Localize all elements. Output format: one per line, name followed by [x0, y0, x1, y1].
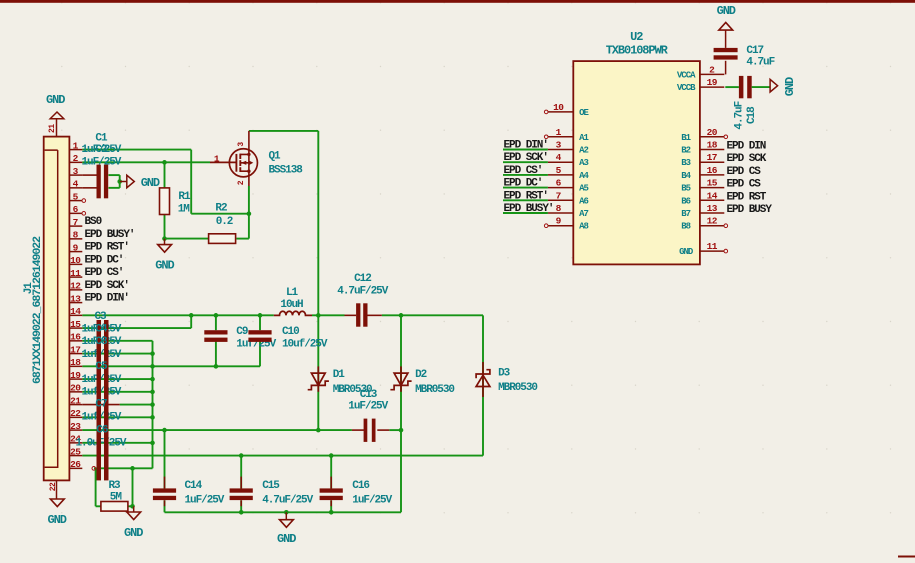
inductor L1	[274, 311, 312, 315]
svg-text:6: 6	[73, 204, 79, 215]
junction bus19	[150, 377, 155, 382]
ground top of J1	[50, 112, 64, 119]
svg-text:GND: GND	[48, 513, 67, 527]
no-connect A1	[544, 135, 548, 139]
junction D2/C13	[399, 428, 404, 433]
svg-text:4.7uF/25V: 4.7uF/25V	[262, 495, 313, 507]
svg-text:R3: R3	[109, 480, 122, 492]
capacitors C3-C8 plates	[97, 320, 102, 480]
svg-text:1uF/25V: 1uF/25V	[352, 495, 392, 507]
svg-text:13: 13	[707, 203, 718, 214]
svg-text:10uf/25V: 10uf/25V	[282, 338, 328, 350]
no-connect B8	[724, 224, 728, 228]
svg-text:R1: R1	[178, 191, 191, 203]
svg-text:C7: C7	[95, 399, 107, 411]
wire C14 bottom	[164, 500, 166, 512]
junction GND	[284, 510, 289, 515]
svg-text:A6: A6	[579, 196, 588, 206]
pin 4 of J1	[69, 187, 82, 189]
wire C13 right	[389, 429, 401, 431]
junction C15 bottom	[239, 510, 244, 515]
wire C16 bottom	[330, 500, 332, 512]
svg-text:GND: GND	[124, 526, 143, 540]
pin 8 U2 (A7)	[548, 212, 573, 214]
C14 bottom lead	[164, 500, 166, 506]
svg-text:B5: B5	[681, 184, 690, 194]
no-connect pin 5	[82, 199, 86, 203]
svg-text:9: 9	[556, 216, 562, 227]
pin 5 U2 (A4)	[548, 174, 573, 176]
pin 2 U2 (VCCA)	[700, 73, 724, 75]
wire C2 right	[109, 187, 120, 189]
svg-text:C9: C9	[236, 326, 248, 338]
junction R3/GND	[130, 504, 135, 509]
svg-text:B3: B3	[681, 158, 690, 168]
svg-text:3: 3	[237, 142, 246, 147]
pin 9 U2 (A8)	[548, 225, 573, 227]
svg-text:TXB0108PWR: TXB0108PWR	[606, 44, 669, 58]
svg-text:14: 14	[70, 306, 81, 317]
pin 15 of J1	[69, 327, 82, 329]
svg-text:6: 6	[556, 178, 562, 189]
svg-text:EPD CS': EPD CS'	[85, 267, 124, 279]
svg-text:BSS138: BSS138	[269, 165, 304, 177]
sheet border top	[0, 0, 915, 3]
C12 left lead	[345, 314, 357, 316]
svg-text:C16: C16	[352, 480, 369, 492]
capacitor C9	[204, 330, 227, 334]
wire pin23 net	[82, 429, 352, 431]
svg-text:C4: C4	[95, 324, 108, 336]
svg-text:4.7uF: 4.7uF	[734, 101, 746, 129]
svg-text:A8: A8	[579, 222, 588, 232]
svg-text:A2: A2	[579, 146, 588, 156]
wire C10 top	[259, 315, 261, 330]
no-connect pin 6	[82, 212, 86, 216]
wire C14 top	[164, 430, 166, 488]
ground stub	[133, 506, 135, 512]
svg-text:7: 7	[556, 190, 562, 201]
svg-text:D2: D2	[415, 369, 427, 381]
pin 17 U2 (B3)	[700, 161, 724, 163]
svg-text:20: 20	[707, 127, 718, 138]
wire D3 vertical	[482, 315, 484, 455]
junction	[117, 179, 122, 184]
no-connect A8	[544, 224, 548, 228]
junction D1 bottom	[316, 428, 321, 433]
pin 19 U2 (VCCB)	[700, 86, 724, 88]
svg-text:4: 4	[73, 179, 79, 190]
no-connect OE	[544, 110, 548, 114]
svg-text:2: 2	[709, 64, 715, 75]
wire pin2/gate net	[82, 161, 210, 163]
transistor Q1	[210, 131, 257, 186]
svg-text:4.7uF/25V: 4.7uF/25V	[337, 286, 388, 298]
svg-text:EPD BUSY: EPD BUSY	[727, 204, 773, 216]
junction bus24	[150, 441, 155, 446]
pin 14 of J1	[69, 314, 82, 316]
pin 9 of J1	[69, 251, 82, 253]
pin 8 of J1	[69, 238, 82, 240]
pin 25 of J1	[69, 455, 82, 457]
junction	[189, 313, 194, 318]
pin 14 U2 (B6)	[700, 199, 724, 201]
pin 15 U2 (B5)	[700, 187, 724, 189]
wire pin24	[82, 442, 152, 444]
wire C1 right	[109, 174, 120, 176]
junction R1/R2/GND	[162, 236, 167, 241]
pin 20 U2 (B1)	[700, 136, 724, 138]
pin 1 U2 (A1)	[548, 136, 573, 138]
svg-text:MBR0530: MBR0530	[415, 384, 454, 396]
svg-text:C2: C2	[95, 144, 107, 156]
wire R1 top	[164, 162, 166, 188]
wire R3 left lead	[96, 505, 101, 507]
svg-text:11: 11	[70, 268, 81, 279]
svg-text:C15: C15	[262, 480, 280, 492]
pin 18 of J1	[69, 365, 82, 367]
svg-text:C10: C10	[282, 326, 299, 338]
svg-text:1uF/25V: 1uF/25V	[185, 495, 225, 507]
C12 right lead	[367, 314, 382, 316]
svg-text:EPD BUSY': EPD BUSY'	[85, 229, 135, 241]
svg-text:C8: C8	[95, 336, 108, 348]
wire Q1 source down	[248, 186, 250, 239]
pin 5 of J1	[69, 200, 82, 202]
svg-text:GND: GND	[155, 259, 174, 273]
ground right of C18	[770, 79, 778, 92]
wire C10 bottom	[259, 341, 261, 367]
svg-text:B7: B7	[681, 209, 690, 219]
svg-text:VCCB: VCCB	[677, 83, 696, 93]
svg-text:10uH: 10uH	[280, 299, 303, 311]
wire pin18 to C9/C10	[82, 365, 260, 367]
svg-text:10: 10	[70, 255, 81, 266]
wire R1 bottom	[164, 215, 166, 239]
wire EPD CS'	[503, 174, 548, 176]
resistor R2	[209, 234, 236, 244]
junction bus18	[150, 364, 155, 369]
svg-text:9: 9	[73, 242, 79, 253]
no-connect GND	[724, 249, 728, 253]
junction C9 bottom	[214, 364, 219, 369]
svg-text:D1: D1	[333, 369, 346, 381]
svg-text:R2: R2	[215, 202, 227, 214]
svg-text:19: 19	[70, 370, 81, 381]
svg-text:1: 1	[73, 140, 79, 151]
wire pin1 net	[82, 149, 191, 151]
svg-text:1uf/25V: 1uf/25V	[82, 349, 122, 361]
svg-text:16: 16	[70, 332, 81, 343]
svg-text:5: 5	[556, 165, 562, 176]
svg-text:A5: A5	[579, 184, 588, 194]
C7 lead	[82, 404, 119, 406]
svg-text:14: 14	[707, 190, 718, 201]
wire row15 up	[190, 315, 192, 328]
junction C10	[258, 313, 263, 318]
pin 13 of J1	[69, 302, 82, 304]
wire C18 to GND	[752, 86, 770, 88]
svg-text:EPD SCK': EPD SCK'	[504, 152, 548, 164]
svg-text:15: 15	[707, 178, 718, 189]
svg-text:12: 12	[70, 281, 81, 292]
pin 26 of J1	[69, 467, 82, 469]
svg-text:Q1: Q1	[269, 151, 282, 163]
pin 18 U2 (B2)	[700, 149, 724, 151]
svg-text:EPD DC': EPD DC'	[504, 178, 543, 190]
capacitor C15	[230, 488, 253, 492]
wire rail L1-C12	[312, 314, 345, 316]
ground GND right of C1/C2	[127, 175, 135, 188]
junction C14 top	[162, 428, 167, 433]
svg-text:1uf/25V: 1uf/25V	[82, 411, 122, 423]
svg-text:21: 21	[70, 395, 81, 406]
pin 10 of J1	[69, 263, 82, 265]
ground stub	[164, 239, 166, 245]
svg-text:17: 17	[707, 152, 718, 163]
pin 22 of J1	[69, 416, 82, 418]
junction bus17	[150, 351, 155, 356]
ground bottom rail	[280, 520, 294, 528]
junction D2	[399, 313, 404, 318]
wire pin15 net	[82, 327, 191, 329]
svg-text:EPD RST: EPD RST	[727, 191, 767, 203]
wire pin22	[82, 416, 152, 418]
pin 23 of J1	[69, 429, 82, 431]
diode D1	[308, 366, 329, 391]
svg-text:C17: C17	[746, 45, 763, 57]
pin 17 of J1	[69, 353, 82, 355]
svg-text:A3: A3	[579, 158, 588, 168]
svg-text:23: 23	[70, 421, 81, 432]
svg-text:C12: C12	[354, 273, 371, 285]
no-connect B1	[724, 135, 728, 139]
pin 20 of J1	[69, 391, 82, 393]
ground above C17	[719, 23, 733, 31]
wire C9 bottom	[215, 341, 217, 367]
wire D2 vertical	[400, 315, 402, 512]
svg-text:D3: D3	[498, 368, 511, 380]
svg-text:1: 1	[556, 127, 562, 138]
svg-text:16: 16	[707, 165, 718, 176]
wire drain down to rail	[317, 131, 319, 315]
svg-text:1M: 1M	[178, 203, 191, 215]
C16 bottom lead	[330, 500, 332, 506]
wire pin17	[82, 353, 152, 355]
junction C16 bottom	[329, 510, 334, 515]
junction bus20	[150, 390, 155, 395]
wire C16 top	[330, 456, 332, 489]
wire EPD SCK'	[503, 161, 548, 163]
svg-text:22: 22	[49, 482, 58, 491]
wire pin25 net	[82, 455, 483, 457]
svg-text:EPD RST': EPD RST'	[504, 190, 548, 202]
svg-text:BS0: BS0	[85, 216, 102, 228]
C15 top lead	[240, 477, 242, 489]
svg-text:17: 17	[70, 344, 81, 355]
svg-text:EPD CS: EPD CS	[727, 179, 762, 191]
svg-text:GND: GND	[679, 247, 694, 257]
pin 7 of J1	[69, 225, 82, 227]
wire to Q1 source	[191, 213, 249, 215]
svg-text:EPD BUSY': EPD BUSY'	[504, 203, 554, 215]
wire D1 vertical	[317, 315, 319, 430]
wire C1-C2 join	[119, 175, 121, 188]
svg-text:GND: GND	[783, 77, 797, 96]
ground bottom of J1	[50, 499, 64, 507]
svg-text:8: 8	[73, 230, 79, 241]
junction D1	[316, 313, 321, 318]
ground stub	[285, 512, 287, 519]
svg-text:A7: A7	[579, 209, 588, 219]
C16 top lead	[330, 477, 332, 489]
svg-text:22: 22	[70, 408, 81, 419]
wire rail left	[82, 314, 273, 316]
svg-text:MBR0530: MBR0530	[498, 382, 537, 394]
pin 19 of J1	[69, 378, 82, 380]
junction bus22	[150, 415, 155, 420]
pin 6 U2 (A5)	[548, 187, 573, 189]
pin 6 of J1	[69, 212, 82, 214]
svg-text:1uF/25V: 1uF/25V	[82, 156, 122, 168]
pin 7 U2 (A6)	[548, 199, 573, 201]
pin 11 of J1	[69, 276, 82, 278]
wire R2 left to R1 node	[165, 238, 209, 240]
svg-text:EPD CS: EPD CS	[727, 166, 762, 178]
capacitor C10	[248, 330, 271, 334]
diode D3	[476, 362, 490, 397]
svg-text:3: 3	[556, 140, 562, 151]
pin 4 U2 (A3)	[548, 161, 573, 163]
svg-text:EPD SCK': EPD SCK'	[85, 280, 129, 292]
diode D2	[390, 366, 411, 391]
wire C9 top	[215, 315, 217, 330]
svg-text:C18: C18	[746, 106, 758, 124]
wire C15 bottom	[240, 500, 242, 512]
svg-text:L1: L1	[286, 287, 299, 299]
pin 12 U2 (B8)	[700, 225, 724, 227]
pin 21 mount stub	[56, 119, 58, 137]
svg-text:13: 13	[70, 293, 81, 304]
capacitor C17 plates	[714, 48, 738, 52]
svg-text:4: 4	[556, 152, 562, 163]
pin 22 mount stub	[56, 480, 58, 499]
junction gate/R1	[162, 160, 167, 165]
wire Q1 drain top	[249, 130, 318, 132]
wire to R2 right	[237, 238, 249, 240]
svg-text:5: 5	[73, 191, 79, 202]
svg-text:11: 11	[707, 241, 718, 252]
svg-text:1uF/25V: 1uF/25V	[348, 400, 388, 412]
wire bus vertical	[152, 341, 154, 469]
wire pin20	[82, 391, 152, 393]
pin 2 of J1	[69, 161, 82, 163]
svg-text:EPD DIN': EPD DIN'	[85, 293, 129, 305]
pin 13 U2 (B7)	[700, 212, 724, 214]
svg-text:B8: B8	[681, 222, 690, 232]
pin 24 of J1	[69, 442, 82, 444]
svg-text:18: 18	[707, 140, 718, 151]
C13 right lead	[377, 429, 389, 431]
svg-text:1.0uF/25V: 1.0uF/25V	[76, 438, 127, 450]
wire VCCA to C17	[725, 61, 727, 75]
svg-text:GND: GND	[277, 532, 296, 546]
svg-text:C14: C14	[185, 480, 203, 492]
svg-text:C1: C1	[95, 133, 108, 145]
ground at R3	[127, 512, 141, 520]
svg-text:EPD DC': EPD DC'	[85, 254, 124, 266]
pin 26 end circle	[92, 467, 96, 471]
C17 top lead	[725, 30, 727, 48]
svg-text:2: 2	[73, 153, 79, 164]
resistor R1	[160, 188, 170, 215]
IC U2 TXB0108PWR	[573, 61, 700, 264]
junction C15 top	[239, 453, 244, 458]
pin 10 U2 (OE)	[548, 111, 573, 113]
wire C15 top	[240, 456, 242, 489]
ground stub	[120, 181, 127, 183]
svg-text:B2: B2	[681, 146, 690, 156]
C2 left lead	[82, 187, 96, 189]
svg-text:12: 12	[707, 216, 718, 227]
svg-text:U2: U2	[630, 30, 643, 44]
wire VCCB to C18	[725, 86, 739, 88]
pin 3 U2 (A2)	[548, 149, 573, 151]
svg-text:15: 15	[70, 319, 81, 330]
svg-text:MBR0530: MBR0530	[333, 384, 372, 396]
pin 21 of J1	[69, 404, 82, 406]
resistor R3	[101, 502, 128, 512]
svg-text:19: 19	[707, 77, 718, 88]
svg-text:EPD DIN': EPD DIN'	[504, 140, 548, 152]
svg-text:26: 26	[70, 459, 81, 470]
svg-text:C6: C6	[96, 424, 108, 436]
svg-text:B6: B6	[681, 196, 690, 206]
wire EPD BUSY'	[503, 212, 548, 214]
svg-text:GND: GND	[717, 4, 736, 18]
junction bus21	[150, 402, 155, 407]
junction C16 top	[329, 453, 334, 458]
svg-text:8: 8	[556, 203, 562, 214]
capacitor C14	[153, 488, 176, 492]
svg-text:7: 7	[73, 217, 79, 228]
svg-text:GND: GND	[46, 93, 65, 107]
wire bottom rail	[165, 511, 402, 513]
pin 12 of J1	[69, 289, 82, 291]
pin 3 of J1	[69, 174, 82, 176]
junction	[130, 466, 135, 471]
wire R3 right lead	[127, 505, 132, 507]
svg-text:1uf/25V: 1uf/25V	[82, 387, 122, 399]
C13 left lead	[352, 429, 364, 431]
svg-text:1uF/25V: 1uF/25V	[82, 374, 122, 386]
pin 16 of J1	[69, 340, 82, 342]
svg-text:4.7uF: 4.7uF	[746, 57, 774, 69]
wire rail right	[382, 314, 483, 316]
wire EPD RST'	[503, 199, 548, 201]
capacitor C1/C2 plates	[97, 165, 101, 199]
pin 16 U2 (B4)	[700, 174, 724, 176]
wire pin16	[82, 340, 152, 342]
svg-text:3: 3	[73, 166, 79, 177]
svg-text:5M: 5M	[110, 491, 123, 503]
svg-text:EPD SCK: EPD SCK	[727, 153, 767, 165]
junction C9	[214, 313, 219, 318]
svg-text:EPD RST': EPD RST'	[85, 242, 129, 254]
pin 1 of J1	[69, 149, 82, 151]
svg-text:EPD DIN: EPD DIN	[727, 141, 766, 153]
svg-text:0.2: 0.2	[216, 216, 233, 228]
